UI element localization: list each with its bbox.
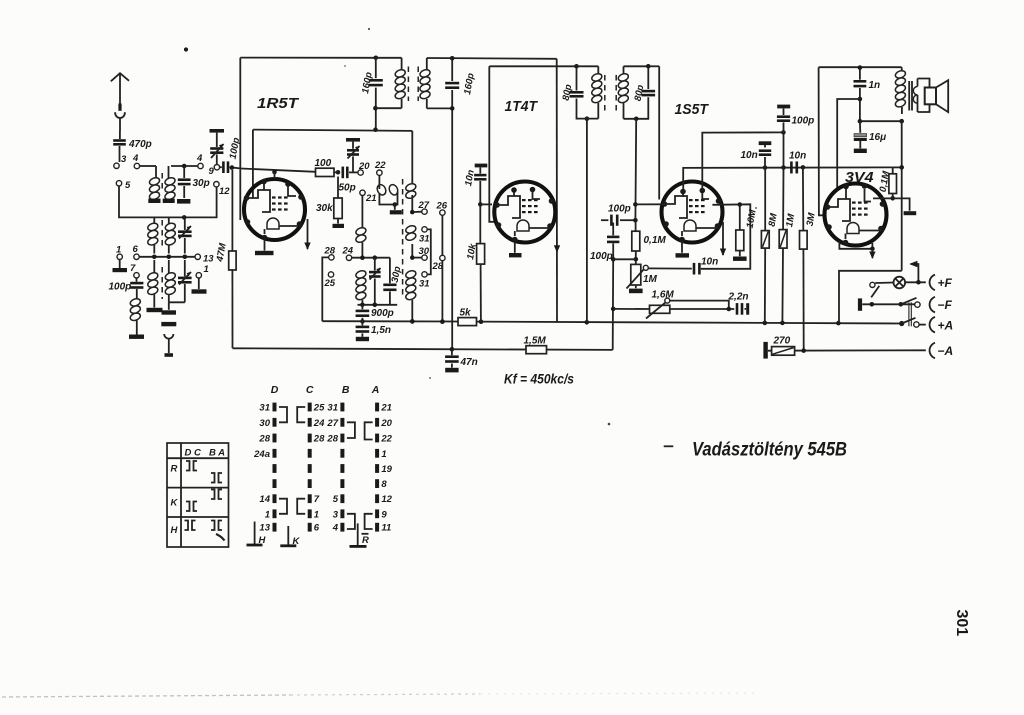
ground bbox=[177, 199, 190, 204]
bracket C top bbox=[297, 407, 305, 422]
svg-text:K: K bbox=[171, 498, 179, 509]
svg-text:3: 3 bbox=[333, 509, 339, 520]
svg-text:26: 26 bbox=[436, 201, 448, 212]
svg-text:1: 1 bbox=[381, 449, 386, 460]
svg-text:14: 14 bbox=[259, 494, 270, 505]
bracket C bottom bbox=[297, 499, 305, 514]
capacitor 16u bbox=[859, 121, 861, 133]
tube 1R5T pins bbox=[261, 179, 267, 185]
svg-text:1R5T: 1R5T bbox=[257, 95, 300, 112]
terminal 30 bbox=[415, 257, 422, 259]
terminal 1b bbox=[196, 273, 201, 278]
ground bbox=[148, 199, 160, 203]
table contact H-BA bbox=[211, 521, 215, 531]
ground 22 bbox=[394, 205, 396, 210]
table contact H-DC bbox=[185, 521, 189, 531]
terminal 1 bbox=[117, 254, 122, 259]
bracket B bbox=[347, 422, 355, 438]
line -F bbox=[862, 303, 915, 305]
capacitor 10n b bbox=[790, 161, 793, 173]
switch contact F bbox=[870, 282, 875, 287]
grid feed 3V4 bbox=[819, 67, 825, 215]
capacitor 100p 3v4 bbox=[777, 105, 790, 109]
coil IFT1a bbox=[401, 58, 403, 70]
resistor 10M bbox=[739, 205, 741, 231]
svg-text:100p: 100p bbox=[608, 204, 631, 215]
svg-text:4: 4 bbox=[132, 153, 139, 164]
svg-text:5k: 5k bbox=[460, 308, 472, 319]
wire riser bbox=[612, 259, 615, 350]
ground bbox=[119, 260, 121, 269]
svg-text:1: 1 bbox=[265, 509, 270, 520]
junction bbox=[182, 215, 187, 220]
connector +A bbox=[930, 317, 935, 333]
wire 24-30p bbox=[352, 257, 390, 259]
coil L5 bbox=[129, 297, 141, 307]
svg-text:1,5n: 1,5n bbox=[371, 325, 391, 336]
wire 26-28 bbox=[441, 215, 443, 255]
svg-text:24: 24 bbox=[313, 418, 325, 429]
ground small bbox=[165, 353, 174, 357]
wire det bbox=[613, 258, 636, 260]
coil t2b bbox=[405, 224, 417, 234]
switch blade F2 bbox=[901, 298, 917, 305]
svg-text:13: 13 bbox=[259, 523, 270, 534]
svg-text:D: D bbox=[271, 384, 279, 396]
terminal 7 bbox=[134, 273, 139, 278]
svg-text:4: 4 bbox=[332, 523, 339, 534]
terminal 3 bbox=[114, 163, 119, 168]
tube 1R5T internals bbox=[247, 190, 271, 212]
bracket A bottom bbox=[365, 514, 373, 529]
grid wire 1S5T bbox=[633, 202, 638, 207]
trimmer osc2 bbox=[374, 258, 376, 271]
svg-text:28: 28 bbox=[313, 434, 325, 445]
core bbox=[407, 67, 409, 102]
svg-text:D C: D C bbox=[185, 448, 202, 459]
capacitor 100p avc bbox=[601, 219, 608, 221]
svg-text:16μ: 16μ bbox=[869, 132, 886, 143]
ground bbox=[162, 310, 177, 314]
svg-text:301: 301 bbox=[953, 610, 970, 637]
svg-text:12: 12 bbox=[219, 186, 230, 197]
bracket D bottom bbox=[279, 499, 287, 514]
svg-text:50p: 50p bbox=[339, 183, 356, 194]
resistor 100 bbox=[316, 168, 335, 176]
inner box top bbox=[253, 130, 412, 131]
table frame bbox=[167, 443, 229, 547]
terminal 25 bbox=[328, 272, 333, 277]
terminal 31b bbox=[422, 272, 427, 277]
coil L6 bbox=[153, 260, 155, 273]
core IFT2 bbox=[604, 75, 606, 111]
trimmer C osc bbox=[184, 217, 186, 230]
coil IFT2a bbox=[597, 66, 599, 74]
tube 1S5T bbox=[662, 182, 723, 243]
svg-text:470p: 470p bbox=[128, 139, 152, 150]
coil IFT2b bbox=[623, 66, 625, 74]
capacitor 100p det bbox=[612, 223, 614, 236]
filament loop bbox=[839, 241, 872, 249]
coil L7 bbox=[168, 260, 170, 273]
coil L2 bbox=[168, 166, 170, 178]
tube 1S5T internals bbox=[665, 196, 688, 218]
table contact K-DC bbox=[186, 502, 190, 512]
svg-text:31: 31 bbox=[419, 234, 430, 245]
battery bar bbox=[858, 298, 862, 310]
bracket 31-31 bbox=[427, 229, 431, 274]
connector -A bbox=[930, 343, 935, 359]
resistor 1M b bbox=[782, 168, 784, 230]
wiper wire bbox=[670, 301, 729, 309]
tube 3V4 pins bbox=[843, 184, 849, 190]
resistor 47M bbox=[231, 170, 233, 251]
terminal 21 bbox=[360, 190, 365, 195]
svg-text:20: 20 bbox=[358, 161, 370, 172]
capacitor 160p b bbox=[451, 58, 453, 81]
svg-text:100p: 100p bbox=[109, 282, 132, 293]
filament arrow 3V4 bbox=[871, 249, 873, 258]
svg-text:2,2n: 2,2n bbox=[728, 292, 749, 303]
svg-text:−A: −A bbox=[938, 344, 954, 358]
svg-text:7: 7 bbox=[130, 263, 136, 274]
box 1T4T bbox=[489, 66, 495, 222]
svg-text:20: 20 bbox=[380, 418, 392, 429]
junction 3M bbox=[801, 165, 806, 170]
svg-text:30p: 30p bbox=[193, 178, 210, 189]
terminal 28b bbox=[440, 255, 445, 260]
capacitor 1,5n bbox=[361, 321, 363, 325]
terminal 12 bbox=[214, 182, 219, 187]
trimmer C2 bbox=[184, 260, 186, 276]
svg-text:0,1M: 0,1M bbox=[644, 235, 667, 246]
coil IFT1b bbox=[426, 58, 428, 70]
top rail b bbox=[427, 57, 557, 60]
wire 6-13 bbox=[139, 256, 195, 258]
ground tube1 bbox=[264, 240, 266, 251]
wire 28 drop bbox=[322, 257, 328, 321]
capacitor 100p grid bbox=[220, 166, 222, 168]
svg-text:+A: +A bbox=[938, 319, 954, 333]
switch contacts C bbox=[308, 403, 312, 412]
capacitor 100p ant bbox=[136, 278, 138, 282]
svg-text:6: 6 bbox=[133, 244, 139, 255]
svg-text:28: 28 bbox=[258, 434, 270, 445]
svg-text:K: K bbox=[293, 536, 301, 547]
chassis bar bbox=[161, 322, 176, 326]
label wire bbox=[477, 322, 902, 324]
svg-text:1: 1 bbox=[116, 245, 121, 256]
switch contacts A bbox=[375, 403, 379, 412]
gang link bbox=[908, 302, 910, 326]
terminal 13 bbox=[195, 254, 200, 259]
svg-text:1,5M: 1,5M bbox=[524, 336, 547, 347]
svg-text:H: H bbox=[259, 535, 267, 546]
tube 1T4T pins bbox=[511, 187, 517, 193]
bracket D top bbox=[279, 407, 287, 422]
resistor 270 bbox=[772, 347, 795, 356]
resistor 10k bbox=[479, 204, 481, 243]
svg-text:1: 1 bbox=[314, 509, 319, 520]
arrow to filament bbox=[911, 264, 918, 282]
terminal 6 bbox=[134, 254, 139, 259]
trimmer 100p bbox=[210, 129, 225, 133]
ground tube3 bbox=[681, 242, 683, 253]
terminal 28a bbox=[329, 255, 334, 260]
svg-text:6: 6 bbox=[314, 523, 320, 534]
core osc bbox=[402, 179, 404, 299]
pot 1M bbox=[635, 259, 637, 264]
capacitor 900p bbox=[361, 305, 363, 310]
table contact K-BA bbox=[211, 490, 215, 500]
resistor 30k bbox=[337, 177, 339, 199]
connector +F bbox=[930, 275, 935, 291]
wire plate 3V4 bbox=[837, 99, 860, 191]
coil t2a bbox=[411, 181, 413, 184]
svg-text:R: R bbox=[362, 535, 369, 546]
tube 1S5T pins bbox=[680, 189, 686, 195]
wire IFT2 sec bbox=[634, 119, 637, 220]
coil IFT2 wire bbox=[585, 116, 590, 121]
antenna bbox=[111, 73, 129, 81]
capacitor 160p bbox=[375, 58, 377, 78]
svg-text:22: 22 bbox=[380, 434, 392, 445]
capacitor 10n grid bbox=[475, 164, 488, 168]
capacitor 30p osc bbox=[389, 258, 391, 284]
svg-text:1T4T: 1T4T bbox=[505, 98, 539, 115]
svg-text:B A: B A bbox=[209, 448, 225, 459]
ground bbox=[198, 278, 200, 289]
grid line bbox=[241, 169, 316, 172]
wire bbox=[169, 301, 185, 303]
svg-text:+F: +F bbox=[938, 276, 953, 290]
lower bus bbox=[233, 348, 613, 350]
resistor 0,1M b bbox=[892, 167, 894, 173]
svg-text:100p: 100p bbox=[590, 251, 613, 262]
capacitor 470p bbox=[119, 131, 121, 139]
junction bbox=[230, 165, 235, 170]
svg-text:R: R bbox=[171, 464, 178, 475]
speaker coil bbox=[913, 87, 917, 104]
svg-text:10n: 10n bbox=[701, 257, 718, 268]
line -A bbox=[763, 342, 767, 359]
svg-text:30: 30 bbox=[419, 246, 430, 257]
svg-text:5: 5 bbox=[125, 180, 131, 191]
ground bbox=[163, 199, 175, 203]
grid wire bbox=[478, 202, 483, 207]
terminal 22 bbox=[377, 170, 382, 175]
table contact R-DC bbox=[186, 461, 190, 471]
terminal 24 bbox=[346, 255, 351, 260]
speaker feed bbox=[899, 119, 904, 124]
hook bbox=[164, 334, 173, 339]
svg-text:7: 7 bbox=[314, 494, 320, 505]
svg-text:B: B bbox=[342, 384, 350, 396]
svg-text:C: C bbox=[306, 384, 314, 396]
svg-text:100: 100 bbox=[315, 158, 332, 169]
ground K bbox=[287, 526, 289, 545]
wire y132 bbox=[702, 132, 783, 168]
wire bbox=[119, 186, 217, 217]
capacitor 10n diode bbox=[648, 267, 692, 269]
svg-text:Vadásztöltény 545B: Vadásztöltény 545B bbox=[692, 439, 847, 461]
title dash bbox=[664, 445, 674, 447]
coil 22 bbox=[378, 175, 380, 189]
trimmer 50p top bbox=[346, 138, 360, 142]
resistor 8M bbox=[764, 168, 766, 231]
pen mark bbox=[216, 534, 225, 541]
capacitor 50p bbox=[342, 167, 345, 179]
svg-text:H: H bbox=[171, 525, 179, 536]
filament arrow bbox=[307, 219, 309, 249]
switch blade A bbox=[899, 321, 904, 326]
wire pin2 bbox=[701, 168, 703, 191]
capacitor 10n a bbox=[763, 165, 768, 170]
switch blade F bbox=[871, 286, 879, 298]
coil L1 bbox=[155, 172, 157, 178]
tube 1R5T bbox=[244, 179, 305, 240]
svg-text:25: 25 bbox=[313, 403, 325, 414]
terminal 20 bbox=[358, 170, 363, 175]
core OT bbox=[908, 81, 910, 111]
tube 1T4T bbox=[494, 182, 555, 243]
svg-text:10n: 10n bbox=[741, 150, 758, 161]
capacitor 30p bbox=[183, 166, 185, 178]
svg-text:1: 1 bbox=[204, 264, 209, 275]
bracket A bbox=[365, 422, 373, 439]
resistor 1,5M bbox=[526, 346, 547, 354]
capacitor 1n bbox=[859, 68, 861, 80]
ground tube2 bbox=[514, 242, 516, 253]
inner box left bbox=[252, 130, 254, 191]
ground R bbox=[357, 523, 359, 545]
F feed corner bbox=[839, 271, 902, 323]
wire bbox=[140, 165, 156, 167]
switch contacts D bbox=[273, 403, 277, 412]
coil t2c bbox=[405, 269, 417, 279]
bracket B bottom bbox=[347, 514, 355, 529]
capacitor 47n bbox=[450, 347, 455, 352]
wire stub bbox=[893, 166, 902, 168]
top rail bbox=[240, 57, 375, 59]
svg-text:1S5T: 1S5T bbox=[675, 101, 710, 118]
transformer OT bbox=[901, 67, 903, 71]
svg-text:4: 4 bbox=[196, 153, 203, 164]
coil L3 bbox=[153, 217, 155, 223]
table contact R-BA bbox=[211, 473, 215, 483]
svg-text:13: 13 bbox=[203, 254, 214, 265]
svg-text:28: 28 bbox=[326, 434, 338, 445]
svg-text:11: 11 bbox=[381, 523, 391, 534]
svg-text:3: 3 bbox=[121, 154, 127, 165]
svg-text:Kf = 450kc/s: Kf = 450kc/s bbox=[504, 372, 574, 387]
terminal 27 bbox=[415, 211, 422, 213]
terminal 4 bbox=[134, 163, 139, 168]
wire bbox=[171, 165, 198, 167]
svg-text:21: 21 bbox=[365, 193, 377, 204]
filament arrow 1S5T bbox=[722, 222, 724, 255]
bus B- left bbox=[322, 320, 458, 322]
svg-text:9: 9 bbox=[381, 509, 387, 520]
ground H bbox=[254, 522, 256, 545]
core bbox=[161, 220, 163, 250]
svg-text:30k: 30k bbox=[316, 203, 333, 214]
junction line bbox=[358, 304, 398, 306]
coil L4 bbox=[168, 217, 170, 223]
wire 1S5T grid bbox=[648, 65, 659, 67]
terminal 31a bbox=[422, 227, 427, 232]
tube 1T4T internals bbox=[497, 196, 520, 218]
svg-text:22: 22 bbox=[374, 160, 386, 171]
svg-text:9: 9 bbox=[209, 166, 215, 177]
vertical x557 bbox=[556, 59, 558, 323]
svg-text:25: 25 bbox=[324, 278, 336, 289]
resistor 0,1M bbox=[635, 220, 637, 231]
svg-text:12: 12 bbox=[381, 494, 392, 505]
diode line bbox=[683, 167, 893, 191]
filament arrow 1T4T bbox=[554, 245, 560, 253]
capacitor 2,2n bbox=[670, 308, 735, 310]
tank IFT2a bbox=[576, 66, 578, 90]
svg-text:A: A bbox=[371, 384, 380, 396]
tube 3V4 internals bbox=[828, 199, 851, 221]
svg-text:31: 31 bbox=[259, 403, 270, 414]
resistor 3M bbox=[802, 167, 804, 230]
ground bbox=[147, 308, 163, 312]
box 1R5T left bbox=[239, 58, 241, 220]
inner box right bbox=[411, 131, 413, 181]
svg-text:27: 27 bbox=[326, 418, 338, 429]
core bbox=[161, 173, 163, 191]
switch contacts B bbox=[340, 403, 344, 412]
svg-text:8: 8 bbox=[381, 479, 387, 490]
svg-text:24a: 24a bbox=[253, 449, 270, 460]
svg-text:28: 28 bbox=[324, 246, 336, 257]
speaker bbox=[925, 88, 936, 105]
connector -F bbox=[930, 297, 935, 313]
box top bbox=[489, 65, 576, 67]
svg-text:100p: 100p bbox=[792, 116, 815, 127]
svg-text:21: 21 bbox=[380, 403, 392, 414]
lamp bbox=[894, 277, 906, 289]
svg-text:−F: −F bbox=[938, 298, 953, 312]
grid leak line bbox=[873, 198, 910, 210]
tube 3V4 bbox=[825, 184, 887, 246]
terminal 26 bbox=[440, 210, 445, 215]
rail 3V4 bbox=[819, 66, 902, 68]
coil osc b bbox=[355, 269, 367, 279]
svg-text:47n: 47n bbox=[460, 357, 478, 368]
coil osc a bbox=[361, 196, 363, 229]
svg-text:1M: 1M bbox=[643, 274, 658, 285]
svg-text:31: 31 bbox=[327, 403, 338, 414]
svg-text:19: 19 bbox=[381, 464, 392, 475]
terminal 4b bbox=[198, 163, 203, 168]
ground bbox=[129, 335, 144, 339]
svg-text:900p: 900p bbox=[371, 308, 394, 319]
svg-text:10n: 10n bbox=[789, 151, 806, 162]
terminal 9 bbox=[214, 165, 219, 170]
svg-text:31: 31 bbox=[419, 279, 430, 290]
svg-text:1n: 1n bbox=[869, 80, 881, 91]
svg-text:270: 270 bbox=[773, 336, 791, 347]
resistor 5k bbox=[458, 318, 477, 326]
svg-text:1,6M: 1,6M bbox=[652, 290, 675, 301]
terminal 5 bbox=[116, 181, 121, 186]
tank IFT2b bbox=[624, 65, 649, 67]
svg-text:5: 5 bbox=[333, 494, 339, 505]
svg-text:24: 24 bbox=[342, 246, 354, 257]
